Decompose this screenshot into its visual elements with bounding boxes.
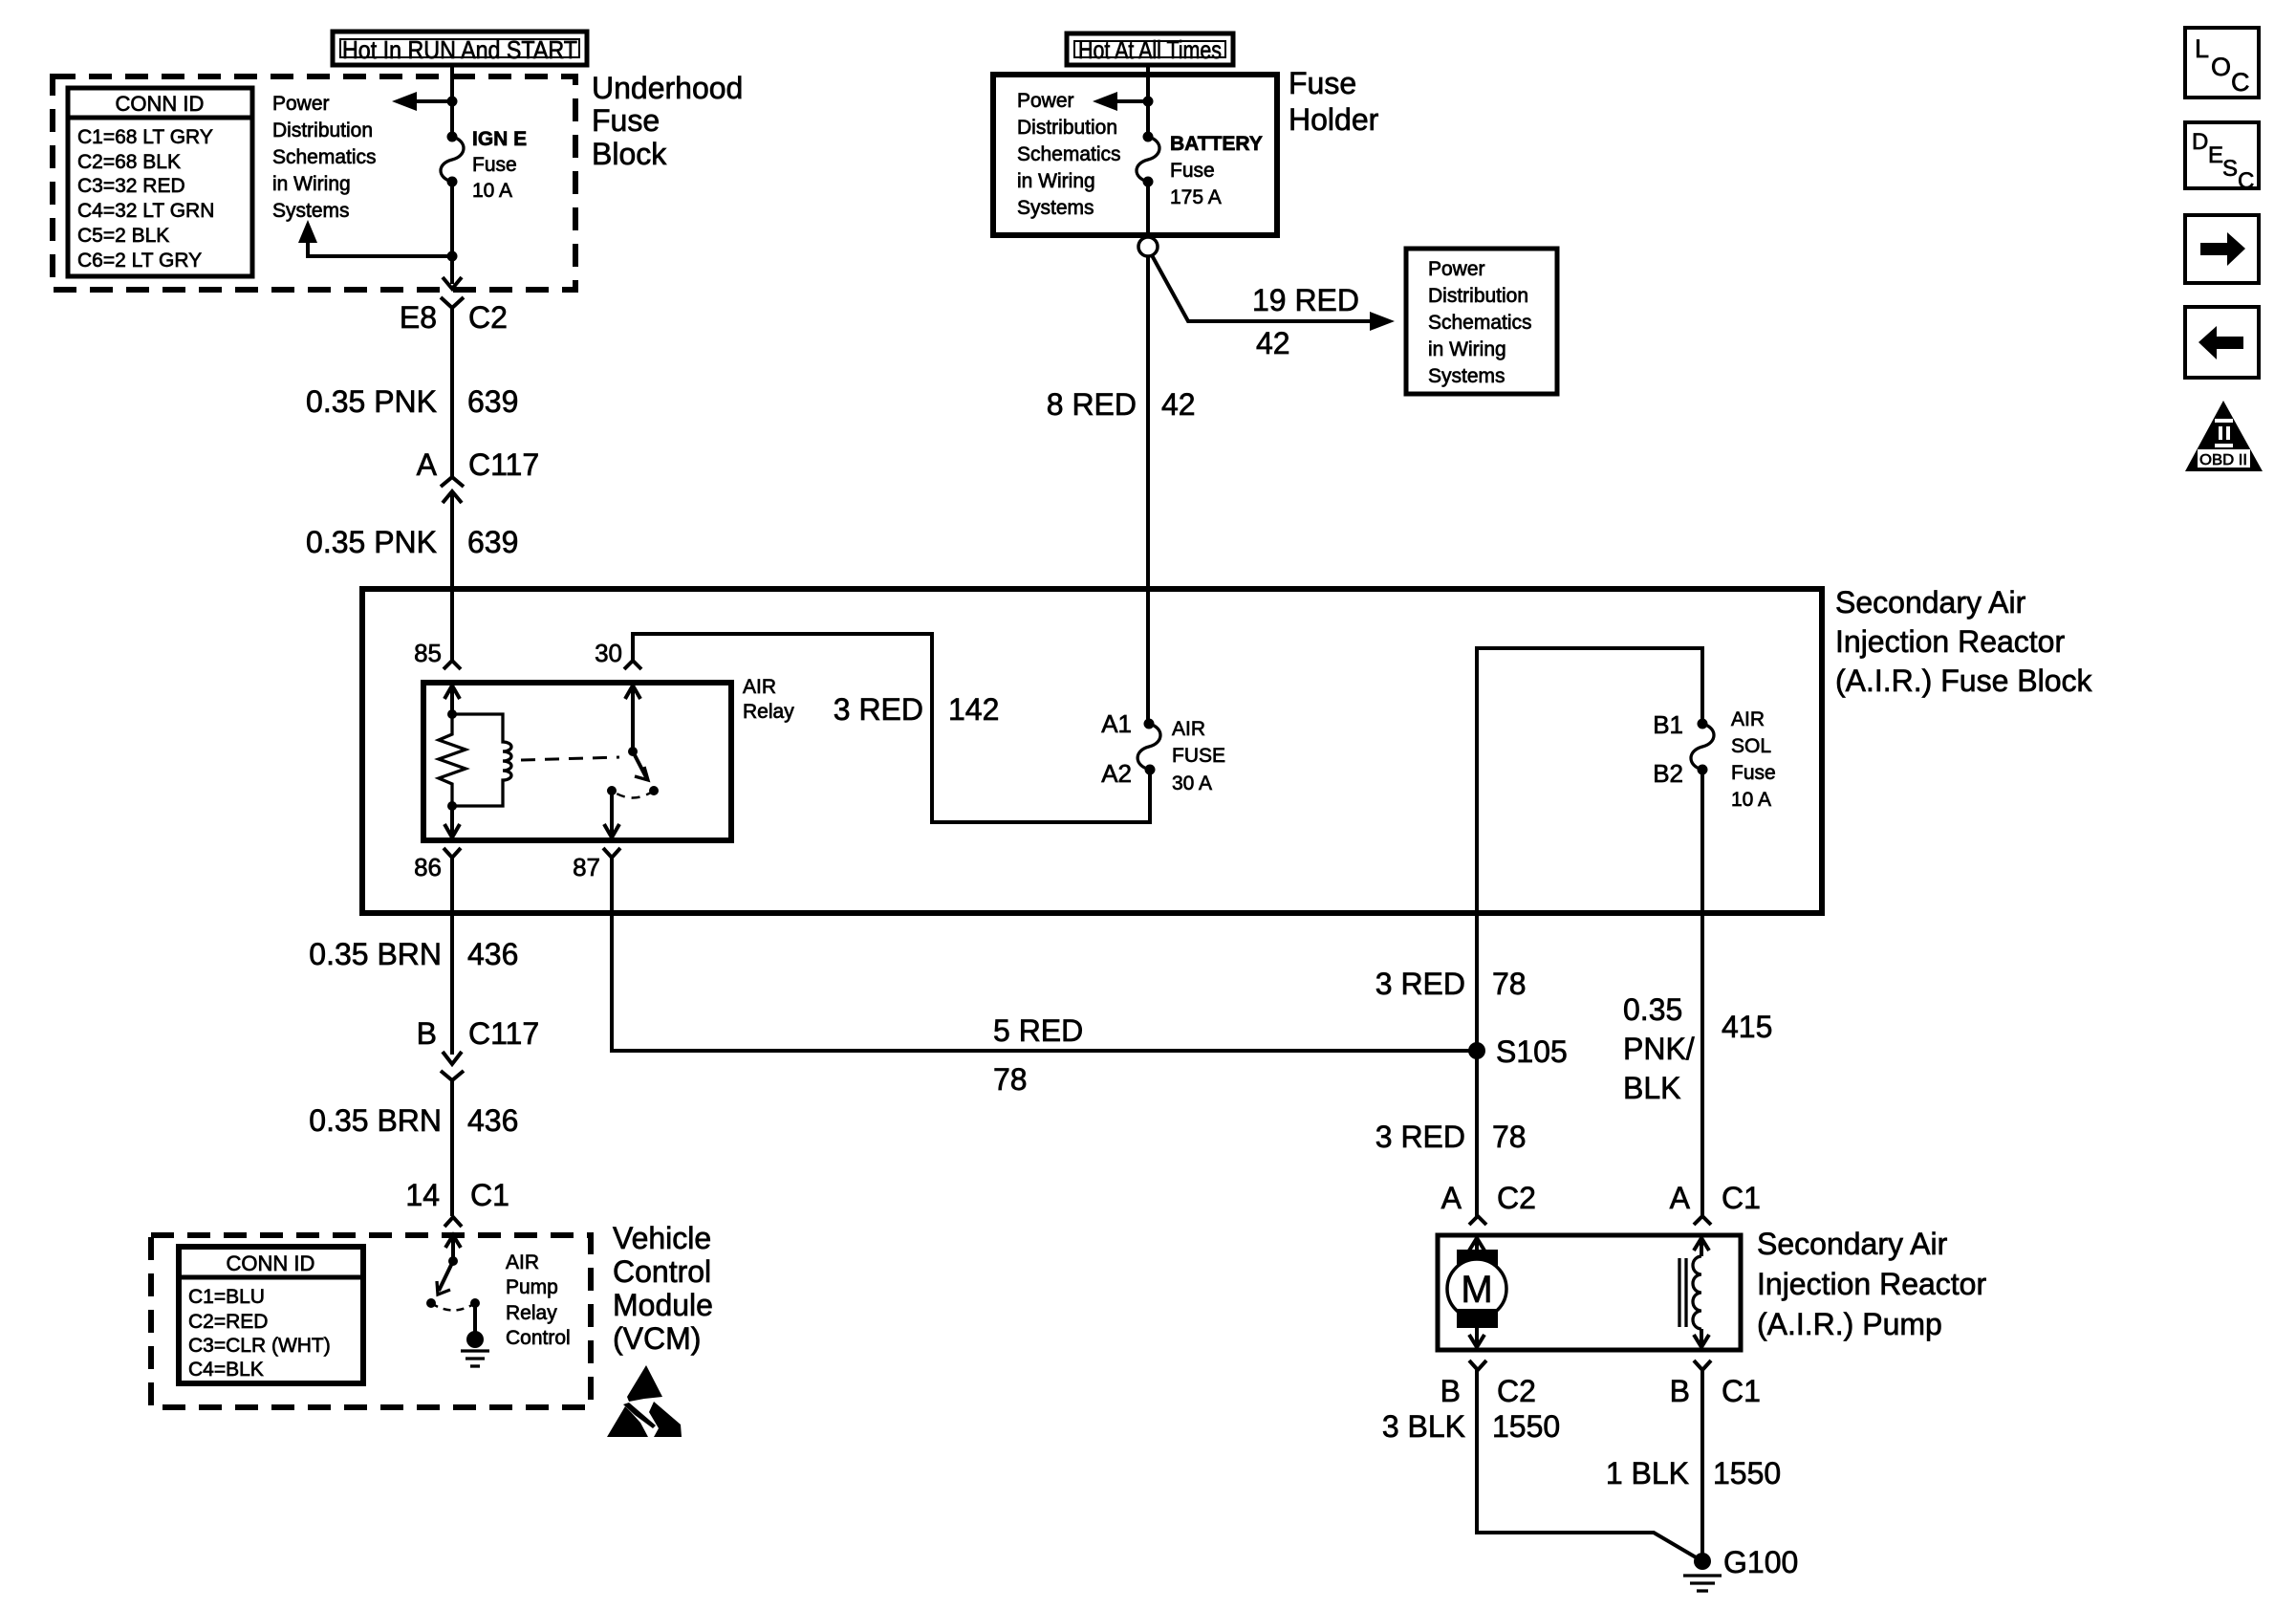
svg-text:87: 87 (573, 853, 600, 881)
arrow to Power Distribution (left) (392, 92, 417, 111)
svg-text:Distribution: Distribution (1017, 117, 1117, 139)
svg-text:in Wiring: in Wiring (1017, 170, 1095, 192)
svg-text:IGN E: IGN E (472, 128, 527, 150)
svg-text:42: 42 (1161, 387, 1196, 422)
svg-text:in Wiring: in Wiring (272, 173, 351, 195)
node: Hot At All Times label box (1067, 33, 1233, 65)
B net top wire from B1 (1477, 648, 1702, 1051)
svg-text:Distribution: Distribution (1428, 285, 1528, 307)
ESD warning symbol (607, 1365, 682, 1437)
connector A/C117 (441, 477, 464, 503)
relay switch arm with arrow (633, 751, 659, 795)
relay actuation dashed link (521, 757, 619, 760)
arrow to Power Distribution (left) (1093, 92, 1117, 111)
svg-text:Control: Control (613, 1254, 711, 1289)
svg-text:CONN ID: CONN ID (227, 1251, 315, 1275)
svg-text:78: 78 (993, 1062, 1028, 1097)
connector B/C117 (441, 1052, 464, 1080)
svg-text:Control: Control (506, 1327, 571, 1349)
AIR Pump Relay Control label (506, 1251, 571, 1349)
fuse BATTERY symbol (1137, 132, 1159, 187)
svg-text:0.35 BRN: 0.35 BRN (309, 1103, 442, 1138)
connector B/C2 (pump) (1469, 1360, 1486, 1370)
junction dot (1143, 97, 1154, 107)
Power Distribution note (Underhood Fuse Block) (272, 93, 377, 222)
wire C117 to VCM (450, 1080, 454, 1216)
wire stub to up arrow (308, 241, 452, 256)
svg-text:175 A: 175 A (1170, 186, 1222, 208)
junction S105 (1468, 1042, 1485, 1059)
svg-text:8 RED: 8 RED (1047, 387, 1137, 422)
Underhood Fuse Block label (592, 71, 743, 171)
svg-text:Power: Power (1017, 90, 1074, 112)
svg-text:436: 436 (467, 937, 518, 971)
svg-text:C117: C117 (468, 1016, 539, 1051)
svg-text:C4=BLK: C4=BLK (188, 1359, 264, 1381)
svg-text:B: B (417, 1016, 437, 1051)
svg-text:E8: E8 (400, 300, 437, 335)
svg-text:10 A: 10 A (1731, 789, 1771, 811)
arrow into Power Distribution box (1370, 312, 1395, 331)
icon: arrow left box (2185, 307, 2259, 378)
svg-text:Schematics: Schematics (1017, 143, 1121, 165)
svg-text:30: 30 (595, 639, 622, 667)
svg-text:C2=RED: C2=RED (188, 1311, 268, 1333)
svg-text:Distribution: Distribution (272, 120, 373, 141)
svg-text:(VCM): (VCM) (613, 1321, 701, 1356)
icon: LOC box (2185, 28, 2259, 98)
pin 30 chevron (624, 661, 641, 669)
svg-text:D: D (2192, 129, 2208, 155)
wire 8 RED 42 down to A.I.R. fuse block (1146, 256, 1150, 724)
svg-text:Relay: Relay (743, 701, 794, 723)
relay switch throw dashed arc (612, 791, 654, 798)
svg-text:G100: G100 (1723, 1545, 1798, 1579)
svg-text:C1=BLU: C1=BLU (188, 1286, 265, 1308)
ground symbol (VCM) (461, 1351, 489, 1366)
svg-text:Fuse: Fuse (592, 103, 660, 138)
wire B/C1 to ground (1700, 1370, 1704, 1561)
svg-text:Fuse: Fuse (472, 154, 517, 176)
svg-text:Systems: Systems (1428, 365, 1505, 387)
svg-text:Secondary Air: Secondary Air (1835, 585, 2026, 620)
relay coil lower dot and lead to 86 (444, 801, 460, 838)
connector B/C1 (pump) (1694, 1360, 1711, 1370)
wire pin 87 down to 5 RED (612, 858, 1477, 1051)
svg-text:E: E (2208, 142, 2223, 168)
svg-text:CONN ID: CONN ID (116, 92, 205, 116)
svg-text:C5=2 BLK: C5=2 BLK (77, 225, 169, 247)
svg-text:A: A (1441, 1181, 1462, 1215)
svg-text:A1: A1 (1101, 709, 1132, 738)
svg-text:C4=32 LT GRN: C4=32 LT GRN (77, 200, 214, 222)
svg-text:86: 86 (414, 853, 442, 881)
icon: arrow right box (2185, 215, 2259, 283)
svg-text:OBD II: OBD II (2199, 452, 2247, 468)
A.I.R. Pump label (1757, 1227, 1986, 1341)
relay coil-side pin 85 lead with arrow (444, 685, 460, 719)
svg-text:Hot In RUN And START: Hot In RUN And START (342, 35, 577, 64)
svg-text:B1: B1 (1653, 710, 1683, 739)
svg-text:Holder: Holder (1289, 102, 1379, 137)
svg-text:A2: A2 (1101, 759, 1132, 788)
icon: DESC box (2185, 122, 2259, 194)
svg-text:(A.I.R.) Fuse Block: (A.I.R.) Fuse Block (1835, 664, 2093, 698)
svg-text:C6=2 LT GRY: C6=2 LT GRY (77, 250, 202, 272)
svg-text:0.35 BRN: 0.35 BRN (309, 937, 442, 971)
svg-text:Injection Reactor: Injection Reactor (1757, 1267, 1986, 1301)
svg-text:5 RED: 5 RED (993, 1013, 1083, 1048)
AIR SOL Fuse 10 A label (1731, 708, 1776, 811)
svg-text:Systems: Systems (272, 200, 350, 222)
terminal circle (1138, 237, 1158, 256)
Vehicle Control Module dashed enclosure (151, 1235, 591, 1407)
svg-text:S105: S105 (1496, 1034, 1568, 1069)
svg-text:142: 142 (948, 692, 999, 727)
svg-text:A: A (1670, 1181, 1691, 1215)
svg-text:BLK: BLK (1623, 1071, 1680, 1105)
icon: OBD II triangle (2185, 401, 2263, 471)
svg-text:639: 639 (467, 384, 518, 419)
svg-text:AIR: AIR (1731, 708, 1765, 730)
svg-text:42: 42 (1256, 326, 1290, 360)
svg-text:AIR: AIR (1172, 718, 1205, 740)
svg-text:(A.I.R.) Pump: (A.I.R.) Pump (1757, 1307, 1942, 1341)
svg-text:PNK/: PNK/ (1623, 1032, 1695, 1066)
svg-text:10 A: 10 A (472, 180, 512, 202)
svg-text:Fuse: Fuse (1731, 762, 1776, 784)
wire below fuse to terminal (1146, 182, 1150, 236)
Secondary Air Injection Reactor (A.I.R.) Fuse Block box (362, 589, 1822, 913)
svg-text:1550: 1550 (1492, 1409, 1560, 1444)
relay coil (452, 714, 511, 806)
svg-text:19 RED: 19 RED (1252, 283, 1359, 317)
svg-text:C: C (2231, 68, 2250, 97)
wire C117 to pin 85 (450, 491, 454, 661)
svg-text:3 RED: 3 RED (834, 692, 923, 727)
Fuse Holder box (993, 75, 1277, 235)
svg-text:C1: C1 (1722, 1374, 1761, 1408)
pump solenoid coil (1679, 1237, 1709, 1348)
svg-text:Fuse: Fuse (1170, 160, 1215, 182)
wire from Hot In RUN And START into fuse block (450, 65, 454, 137)
pin 86 chevron (444, 848, 461, 858)
ground symbol G100 (1683, 1576, 1722, 1591)
node: Hot In RUN And START label box (333, 32, 587, 65)
arrow up to Power Distribution note (298, 220, 317, 243)
junction dot lower (447, 251, 458, 262)
svg-text:C2: C2 (468, 300, 508, 335)
svg-text:Schematics: Schematics (1428, 312, 1532, 334)
relay resistor (439, 714, 466, 806)
AIR FUSE 30 A label (1172, 718, 1225, 794)
wire from Hot At All Times through fuse holder (1146, 65, 1150, 137)
svg-text:85: 85 (414, 639, 442, 667)
svg-text:Hot At All Times: Hot At All Times (1078, 35, 1222, 64)
arrow exiting fuse block at E8 (443, 277, 462, 289)
svg-text:1550: 1550 (1713, 1456, 1781, 1490)
connector A/C2 (pump) (1469, 1216, 1486, 1225)
fuse AIR FUSE A1/A2 (1137, 719, 1160, 775)
pin 87 chevron (603, 848, 620, 858)
svg-text:C1=68 LT GRY: C1=68 LT GRY (77, 126, 213, 148)
svg-text:0.35 PNK: 0.35 PNK (306, 525, 437, 559)
pin 30 wire from relay to A2 net (633, 634, 1150, 822)
svg-text:Relay: Relay (506, 1302, 557, 1324)
Secondary A.I.R. Pump box (1438, 1235, 1741, 1350)
svg-text:FUSE: FUSE (1172, 745, 1225, 767)
wire pin 86 down through block (450, 858, 454, 1055)
svg-text:C2=68 BLK: C2=68 BLK (77, 151, 181, 173)
relay switch contact to pin 87 (604, 786, 619, 838)
svg-text:415: 415 (1722, 1010, 1772, 1044)
svg-text:C3=CLR (WHT): C3=CLR (WHT) (188, 1335, 331, 1357)
wire label 0.35 PNK/BLK 415 (1623, 992, 1772, 1105)
svg-text:0.35 PNK: 0.35 PNK (306, 384, 437, 419)
svg-text:Block: Block (592, 137, 667, 171)
svg-text:C2: C2 (1497, 1374, 1536, 1408)
Vehicle Control Module label (613, 1221, 713, 1356)
svg-text:1 BLK: 1 BLK (1606, 1456, 1689, 1490)
svg-text:B: B (1440, 1374, 1461, 1408)
svg-text:C117: C117 (468, 447, 539, 482)
svg-text:30 A: 30 A (1172, 772, 1212, 794)
svg-text:436: 436 (467, 1103, 518, 1138)
svg-text:in Wiring: in Wiring (1428, 338, 1506, 360)
junction G100 (1694, 1553, 1711, 1570)
svg-text:O: O (2211, 53, 2231, 81)
junction dot (447, 97, 458, 107)
svg-text:Systems: Systems (1017, 197, 1094, 219)
fuse AIR SOL B1/B2 (1691, 719, 1714, 775)
svg-text:Power: Power (1428, 258, 1485, 280)
wire stub to left arrow (1116, 99, 1148, 103)
connector A/C1 (pump) (1694, 1216, 1711, 1225)
A.I.R. Fuse Block label (1835, 585, 2093, 698)
wire S105 to pump A/C2 (1475, 1051, 1479, 1216)
wire B2 down to pump C1 (1700, 770, 1704, 1216)
switch contact with ground (466, 1298, 484, 1348)
svg-text:3 RED: 3 RED (1375, 967, 1465, 1001)
Underhood Fuse Block dashed enclosure (53, 76, 575, 290)
svg-text:639: 639 (467, 525, 518, 559)
BATTERY Fuse 175 A label (1170, 133, 1263, 208)
Fuse Holder label (1289, 66, 1379, 137)
svg-text:AIR: AIR (743, 676, 776, 698)
wire 19 RED branch (1152, 255, 1371, 321)
wire stub to left arrow (415, 99, 452, 103)
svg-text:C1: C1 (470, 1178, 509, 1212)
svg-text:C: C (2238, 168, 2254, 194)
svg-text:14: 14 (405, 1178, 440, 1212)
Power Distribution Schematics box (right) (1406, 249, 1557, 394)
relay box AIR Relay (423, 683, 731, 840)
svg-text:S: S (2222, 156, 2238, 182)
svg-text:B2: B2 (1653, 759, 1683, 788)
svg-text:Underhood: Underhood (592, 71, 743, 105)
svg-text:Module: Module (613, 1288, 713, 1322)
svg-text:B: B (1670, 1374, 1690, 1408)
svg-text:C1: C1 (1722, 1181, 1761, 1215)
svg-text:C2: C2 (1497, 1181, 1536, 1215)
svg-text:3 RED: 3 RED (1375, 1120, 1465, 1154)
svg-text:M: M (1461, 1269, 1492, 1311)
fuse IGN E symbol (441, 132, 464, 187)
CONN ID table (Underhood Fuse Block) (68, 88, 252, 276)
svg-text:Power: Power (272, 93, 330, 115)
VCM driver switch (426, 1235, 461, 1308)
svg-text:C3=32 RED: C3=32 RED (77, 175, 185, 197)
svg-text:Injection Reactor: Injection Reactor (1835, 624, 2065, 659)
connector E8/C2 chevron (441, 297, 464, 308)
Power Distribution note (Fuse Holder) (1017, 90, 1121, 219)
wire E8 to C117 (450, 308, 454, 477)
IGN E Fuse 10 A label (472, 128, 527, 202)
svg-text:Schematics: Schematics (272, 146, 377, 168)
svg-text:78: 78 (1492, 1120, 1527, 1154)
svg-text:3 BLK: 3 BLK (1382, 1409, 1465, 1444)
svg-text:A: A (417, 447, 438, 482)
svg-text:Vehicle: Vehicle (613, 1221, 711, 1255)
svg-text:Secondary Air: Secondary Air (1757, 1227, 1948, 1261)
connector 14/C1 into VCM (444, 1217, 462, 1227)
svg-text:AIR: AIR (506, 1251, 539, 1273)
svg-text:L: L (2195, 34, 2209, 63)
AIR Relay label (743, 676, 794, 723)
switch throw dashed arc (431, 1303, 475, 1311)
svg-text:SOL: SOL (1731, 735, 1771, 757)
svg-text:BATTERY: BATTERY (1170, 133, 1263, 155)
pump motor M (1447, 1237, 1506, 1348)
relay switch common (pin 30) (625, 685, 640, 756)
svg-text:78: 78 (1492, 967, 1527, 1001)
wire below fuse (450, 182, 454, 284)
svg-text:0.35: 0.35 (1623, 992, 1682, 1027)
svg-text:Fuse: Fuse (1289, 66, 1356, 100)
pin 85 chevron (444, 661, 461, 669)
svg-text:Pump: Pump (506, 1276, 558, 1298)
CONN ID table (VCM) (179, 1247, 363, 1383)
wire B/C2 to ground (1477, 1370, 1702, 1561)
